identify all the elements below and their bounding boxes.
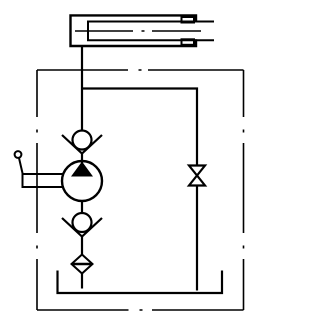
check valve CV1 ball [73,131,92,150]
wire branch line to release valve [82,89,197,166]
ram plunger (piston rod) [88,22,214,41]
release valve V1 (shut-off, two triangles) [189,166,205,186]
pump P1 flow triangle [71,162,93,177]
cylinder centerline (dash-dot axis) [75,30,201,32]
lever knob [15,151,22,158]
pump P1 body [62,161,102,201]
enclosure bottom edge (dash-dot boundary) [37,309,244,311]
check valve CV2 ball [73,213,92,232]
wire release valve to tank [196,186,198,291]
enclosure left edge (dash-dot boundary) [36,70,38,310]
lever arm [23,174,65,187]
wire filter suction to tank [81,274,83,289]
wire CV1 to pump [81,154,83,164]
check valve CV2 seat [62,218,102,237]
gland collar top [182,17,195,23]
gland collar bottom [182,39,195,45]
filter F1 element line [72,263,93,265]
cylinder barrel (hydraulic ram cylinder body) [71,15,197,46]
lever link [19,158,23,174]
filter F1 body [72,255,93,274]
check valve CV1 seat [62,135,102,154]
wire CV2 to filter [81,237,83,255]
enclosure top edge (dash-dot boundary) [37,69,244,71]
tank reservoir [58,271,223,294]
wire supply line cylinder to check valve [81,46,83,131]
wire pump to check valve CV2 [81,201,83,214]
enclosure right edge (dash-dot boundary) [243,70,245,310]
